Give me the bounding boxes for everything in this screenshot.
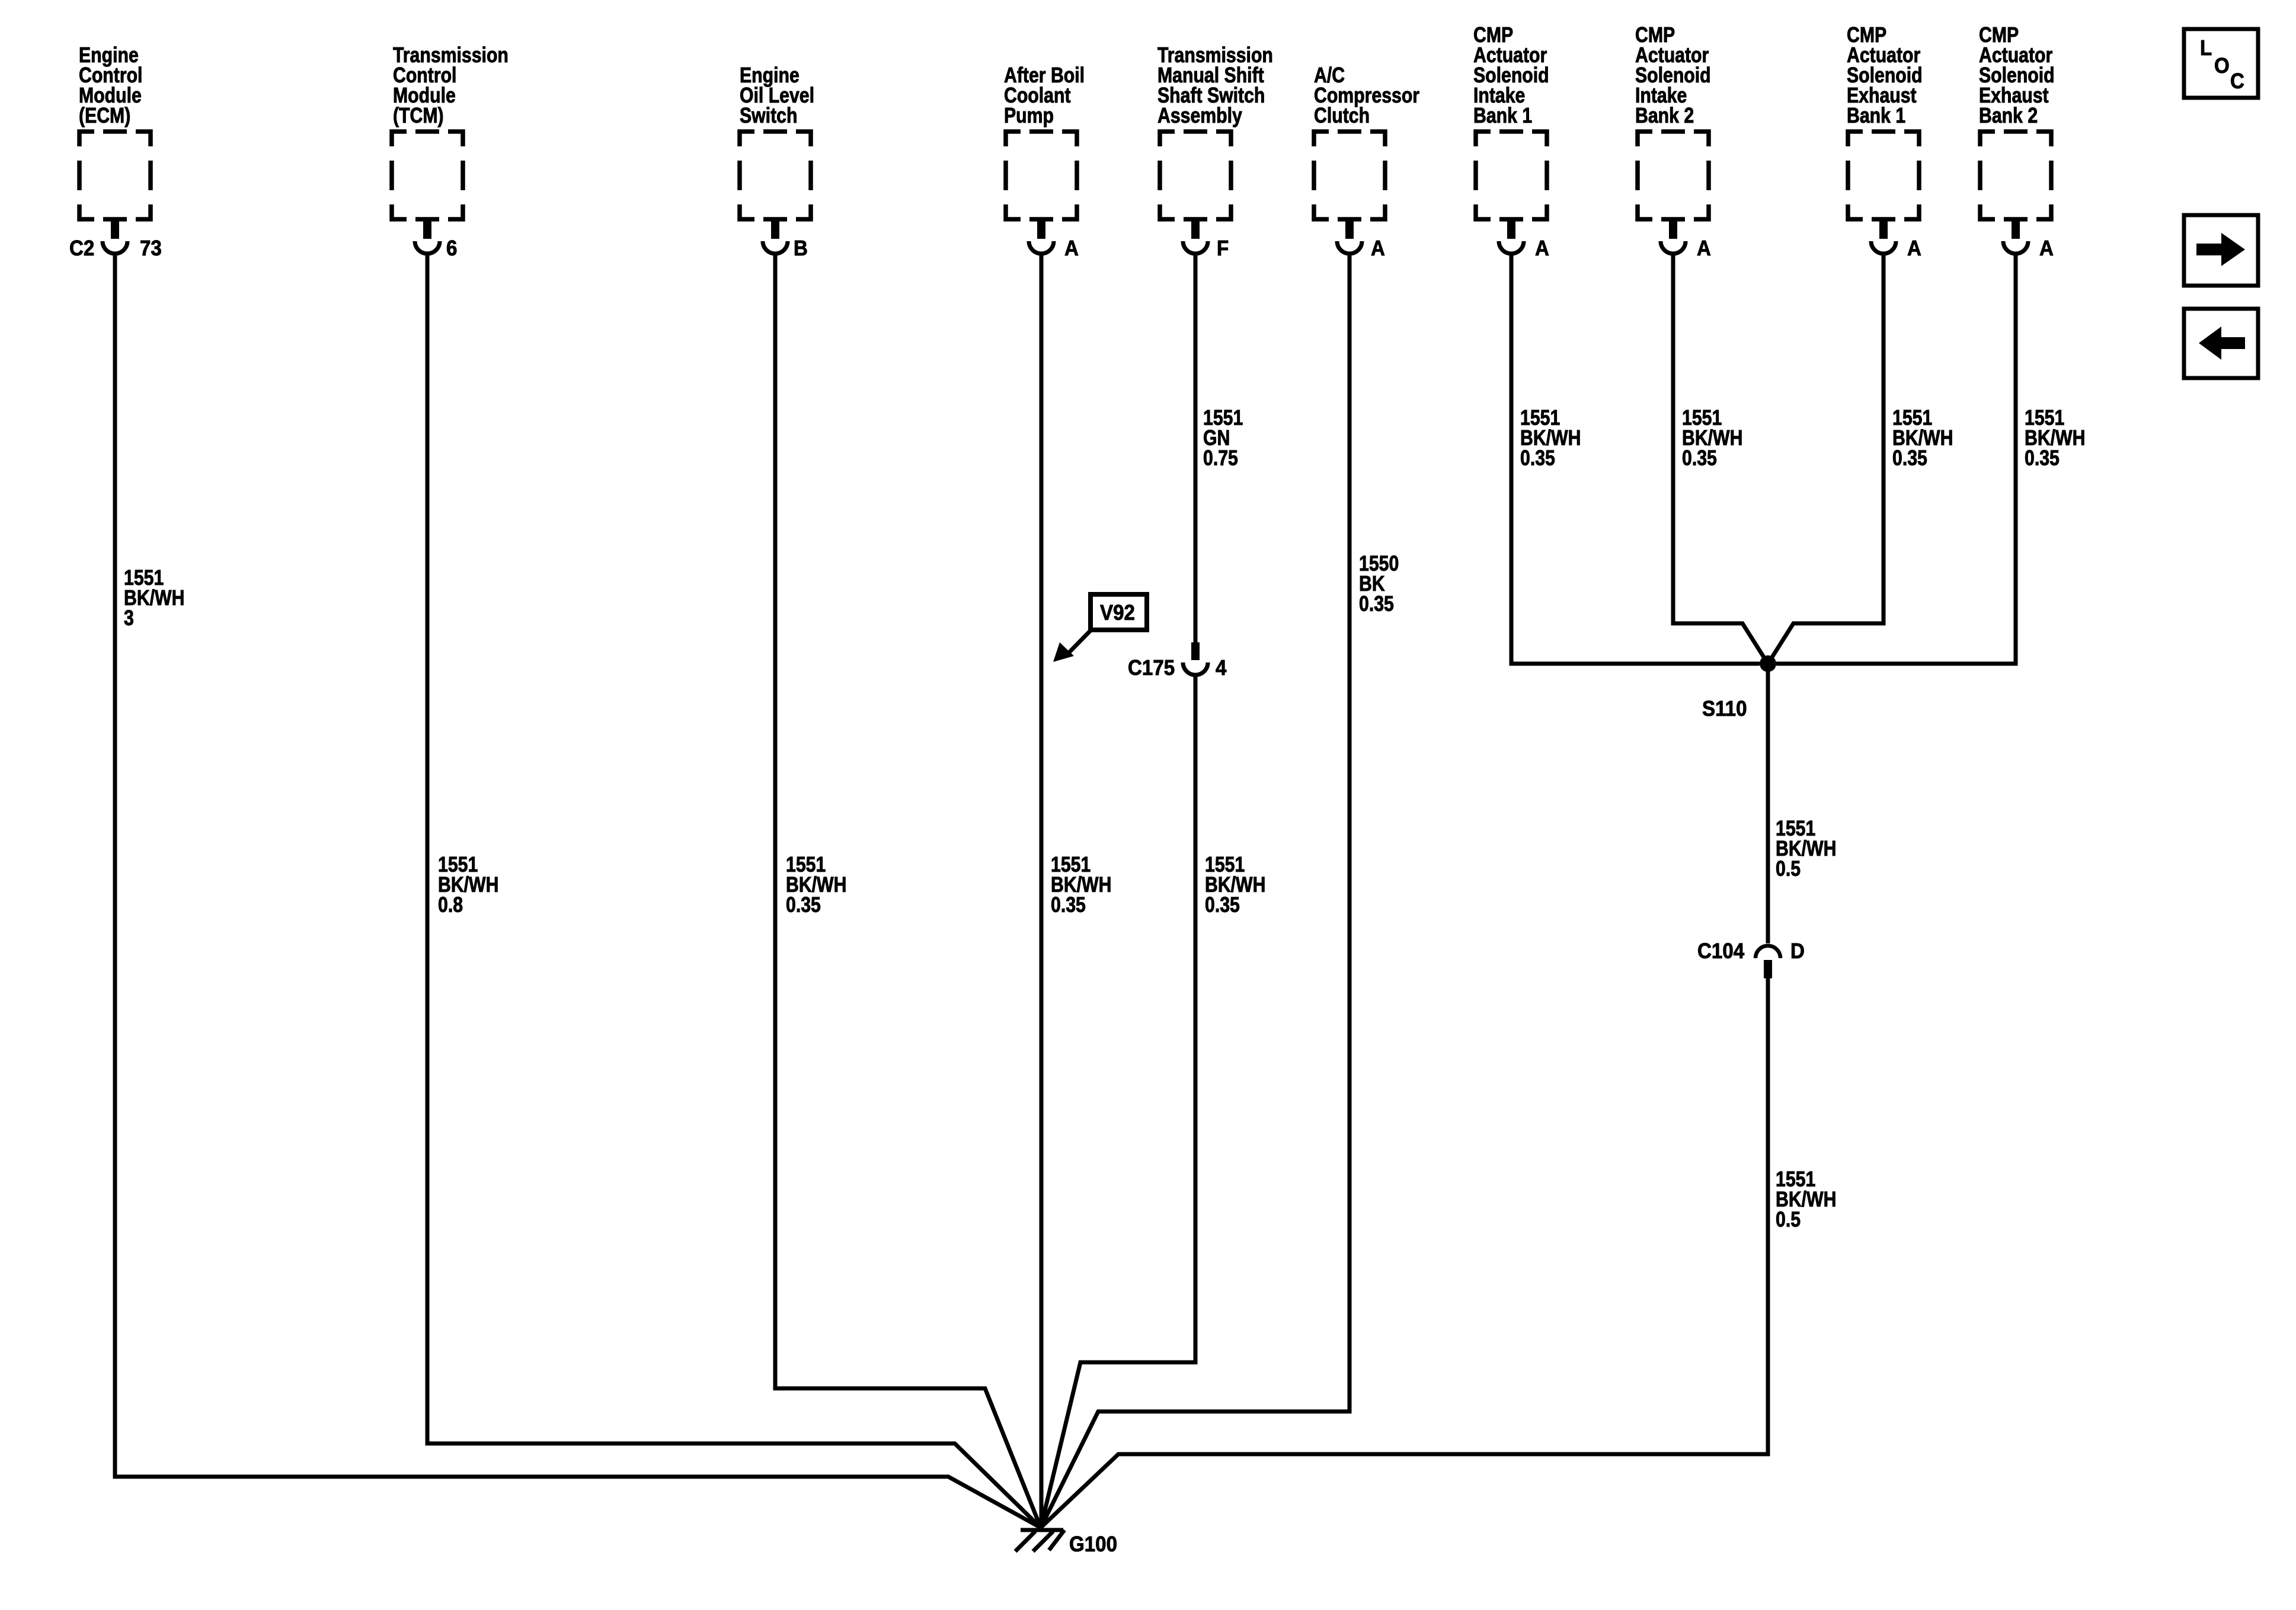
svg-text:0.5: 0.5 — [1776, 1208, 1801, 1232]
wire ECM 1551 BK/WH 3 to G100 — [115, 254, 1041, 1528]
pin label CMP exhaust bank1 pin A — [1907, 237, 1921, 261]
svg-text:Bank 2: Bank 2 — [1979, 104, 2038, 128]
wire label 1551 GN 0.75 — [1203, 406, 1243, 470]
wire After Boil Coolant Pump 1551 BK/WH 0.35 to G100 — [1040, 254, 1044, 1528]
wire CMP exhaust bank2 1551 BK/WH 0.35 to S110 — [1776, 254, 2016, 664]
ground G100 — [1015, 1530, 1117, 1556]
connector C175 pin 4 — [1128, 642, 1227, 680]
wire Engine Oil Level Switch 1551 BK/WH 0.35 to G100 — [775, 254, 1041, 1528]
component box Engine Oil Level Switch — [740, 64, 814, 254]
svg-text:3: 3 — [124, 607, 134, 630]
connector C104 pin D — [1697, 940, 1805, 978]
splice S110 — [1702, 655, 1776, 721]
wire label 1551 BK/WH 0.35 (oil level) — [786, 853, 846, 917]
legend arrow right box — [2184, 215, 2258, 286]
svg-text:0.35: 0.35 — [2025, 447, 2060, 470]
svg-text:D: D — [1790, 940, 1805, 964]
svg-text:C175: C175 — [1128, 657, 1175, 680]
svg-text:Pump: Pump — [1004, 104, 1054, 128]
svg-text:G100: G100 — [1069, 1533, 1117, 1557]
component box After Boil Coolant Pump — [1004, 64, 1085, 254]
svg-text:F: F — [1217, 237, 1229, 261]
wire CMP intake bank2 1551 BK/WH 0.35 to S110 — [1673, 254, 1768, 664]
wire shift switch 1551 GN 0.75 upper segment — [1194, 254, 1198, 642]
wire label 1551 BK/WH 0.35 (intake bank1) — [1520, 406, 1581, 470]
wire label 1550 BK 0.35 — [1359, 552, 1399, 616]
svg-text:0.5: 0.5 — [1776, 857, 1801, 881]
svg-text:Assembly: Assembly — [1157, 104, 1242, 128]
svg-text:Bank 2: Bank 2 — [1635, 104, 1694, 128]
wire label 1551 BK/WH 0.35 (exhaust bank1) — [1892, 406, 1953, 470]
svg-text:A: A — [1697, 237, 1711, 261]
pin label A/C clutch pin A — [1371, 237, 1385, 261]
svg-text:A: A — [1371, 237, 1385, 261]
pin label CMP intake bank2 pin A — [1697, 237, 1711, 261]
wire CMP intake bank1 1551 BK/WH 0.35 to S110 — [1511, 254, 1760, 664]
wire CMP exhaust bank1 1551 BK/WH 0.35 to S110 — [1768, 254, 1884, 664]
legend LOC box — [2184, 29, 2258, 98]
svg-text:A: A — [2039, 237, 2054, 261]
component box CMP Actuator Solenoid Intake Bank 1 — [1473, 24, 1549, 254]
svg-text:C2: C2 — [69, 237, 94, 261]
svg-text:(TCM): (TCM) — [393, 104, 444, 128]
wire label 1551 BK/WH 0.35 (shift lower) — [1205, 853, 1265, 917]
svg-text:C: C — [2230, 70, 2244, 94]
wire A/C compressor clutch 1550 BK 0.35 to G100 — [1041, 254, 1350, 1528]
legend arrow left box — [2184, 309, 2258, 378]
svg-text:(ECM): (ECM) — [79, 104, 130, 128]
svg-text:A: A — [1907, 237, 1921, 261]
svg-text:Clutch: Clutch — [1314, 104, 1370, 128]
svg-text:C104: C104 — [1697, 940, 1745, 964]
svg-text:0.35: 0.35 — [1205, 894, 1240, 917]
svg-text:0.35: 0.35 — [1051, 894, 1086, 917]
pin label Oil Level Switch pin B — [794, 237, 808, 261]
svg-text:6: 6 — [446, 237, 457, 261]
svg-text:0.35: 0.35 — [1359, 593, 1394, 616]
wire label 1551 BK/WH 0.5 (lower) — [1776, 1168, 1836, 1232]
wire label 1551 BK/WH 0.35 (after boil) — [1051, 853, 1111, 917]
component box Engine Control Module (ECM) — [79, 44, 151, 254]
svg-text:0.35: 0.35 — [786, 894, 821, 917]
svg-text:A: A — [1064, 237, 1079, 261]
svg-text:4: 4 — [1216, 657, 1227, 680]
callout V92 (after boil coolant pump vehicle option) — [1053, 594, 1147, 662]
svg-text:0.75: 0.75 — [1203, 447, 1238, 470]
svg-text:Bank 1: Bank 1 — [1473, 104, 1532, 128]
wire shift switch 1551 BK/WH 0.35 lower segment to G100 — [1041, 675, 1195, 1528]
wire S110 to C104 1551 BK/WH 0.5 — [1766, 664, 1770, 943]
wire label 1551 BK/WH 0.8 — [438, 853, 498, 917]
wire label 1551 BK/WH 0.35 (exhaust bank2) — [2025, 406, 2085, 470]
svg-text:73: 73 — [140, 237, 162, 261]
wire label 1551 BK/WH 0.35 (intake bank2) — [1682, 406, 1742, 470]
pin label Shift switch pin F — [1217, 237, 1229, 261]
component box A/C Compressor Clutch — [1314, 64, 1419, 254]
component box CMP Actuator Solenoid Exhaust Bank 1 — [1847, 24, 1923, 254]
wire label 1551 BK/WH 0.5 (upper) — [1776, 817, 1836, 881]
component box CMP Actuator Solenoid Intake Bank 2 — [1635, 24, 1711, 254]
svg-text:L: L — [2200, 37, 2212, 60]
pin label CMP intake bank1 pin A — [1535, 237, 1549, 261]
svg-text:A: A — [1535, 237, 1549, 261]
svg-text:S110: S110 — [1702, 697, 1747, 721]
svg-text:0.8: 0.8 — [438, 894, 463, 917]
svg-text:0.35: 0.35 — [1892, 447, 1927, 470]
svg-text:Bank 1: Bank 1 — [1847, 104, 1905, 128]
svg-text:B: B — [794, 237, 808, 261]
pin label TCM pin 6 — [446, 237, 457, 261]
pin label CMP exhaust bank2 pin A — [2039, 237, 2054, 261]
pin label After Boil pump pin A — [1064, 237, 1079, 261]
svg-text:0.35: 0.35 — [1682, 447, 1717, 470]
svg-text:V92: V92 — [1100, 601, 1135, 625]
wire label 1551 BK/WH 3 — [124, 566, 184, 630]
component box CMP Actuator Solenoid Exhaust Bank 2 — [1979, 24, 2055, 254]
wire TCM 1551 BK/WH 0.8 to G100 — [427, 254, 1041, 1528]
svg-text:O: O — [2214, 55, 2230, 78]
connector label C2 pin 73 (ECM) — [69, 237, 162, 261]
component box Transmission Manual Shift Shaft Switch Assembly — [1157, 44, 1273, 254]
svg-text:0.35: 0.35 — [1520, 447, 1555, 470]
wire C104 to G100 1551 BK/WH 0.5 — [1041, 978, 1768, 1528]
component box Transmission Control Module (TCM) — [392, 44, 509, 254]
svg-text:Switch: Switch — [740, 104, 797, 128]
